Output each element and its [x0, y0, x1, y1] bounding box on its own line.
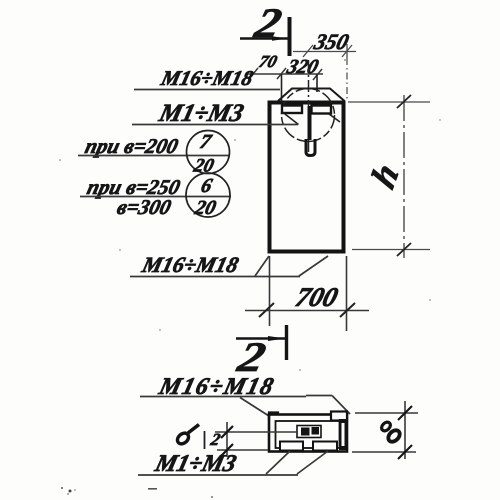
- center plate with two nuts: [297, 426, 321, 438]
- position bubble 6/20: [186, 173, 230, 217]
- anchor plate left (M1-M3): [282, 106, 302, 114]
- stray scan speck 2: [148, 488, 157, 490]
- stray scan speck 1: [69, 490, 72, 493]
- svg-text:М1÷М3: М1÷М3: [152, 450, 239, 477]
- dimension 350: extension dash-dot: [346, 58, 348, 100]
- section view top-left tab: [269, 413, 278, 421]
- anchor plate right (M1-M3): [312, 106, 332, 114]
- bottom notch right (M1-M3): [313, 442, 337, 451]
- construction line through plate: [215, 431, 297, 433]
- dimension 350: dim line: [293, 44, 356, 58]
- dimension v script text (two-loop script letter): [380, 420, 402, 444]
- dimension h: extension line top: [348, 101, 430, 103]
- leader diagonal to bottom edge right: [299, 256, 328, 276]
- small vertical bar: [204, 431, 206, 449]
- leader horizontal stub: [306, 395, 332, 397]
- svg-text:М16÷М18: М16÷М18: [139, 252, 241, 277]
- construction line bottom: [217, 449, 268, 451]
- position bubble 7/20: [187, 131, 230, 174]
- svg-text:320: 320: [284, 56, 321, 78]
- dimension v (section): dim line vertical: [404, 401, 406, 459]
- leader diagonal to right notch: [297, 451, 328, 474]
- leader diagonal to section top-right corner: [332, 396, 350, 415]
- dimension v (section): extension top: [355, 412, 418, 414]
- section mark 2 (bottom): cut line vertical: [236, 325, 287, 360]
- section mark 2 (top): cut line vertical: [240, 17, 290, 56]
- bottom notch left (M1-M3): [280, 442, 303, 451]
- column outline (elevation): [270, 103, 344, 252]
- dimension h: oblique ticks: [397, 95, 411, 256]
- section right wall (dark): [339, 419, 347, 450]
- leader underline M16-M18 (top): [134, 89, 280, 91]
- leader diagonal to left notch: [266, 451, 290, 474]
- small dim oblique ticks: [221, 426, 233, 456]
- leader underline M16-M18 (bottom): [130, 276, 300, 278]
- section view inner outline: [276, 421, 340, 448]
- dimension h: dim line (dash-dot vertical): [403, 95, 405, 258]
- dimension 70/320: dim line: [246, 68, 323, 80]
- svg-text:М1÷М3: М1÷М3: [156, 99, 247, 127]
- dimension 700: extension line right: [346, 256, 348, 331]
- section view outer outline: [269, 415, 347, 452]
- column top cap (trapezoid): [278, 89, 345, 102]
- leader underline pri v=250 / bubble divider: [80, 196, 231, 198]
- dimension 700: oblique ticks: [259, 303, 355, 317]
- svg-text:350: 350: [311, 29, 352, 54]
- nut right (filled): [312, 427, 320, 435]
- dimension 700: dim line: [245, 310, 369, 312]
- svg-text:М16÷М18: М16÷М18: [158, 66, 256, 90]
- leader underline M1-M3: [132, 124, 298, 126]
- leader diagonal at right plate: [329, 114, 340, 122]
- dimension h: extension line bottom: [352, 249, 430, 251]
- anchor bolt shank: [308, 106, 312, 140]
- leader diagonal to section top-left corner: [240, 398, 269, 417]
- dimension v (section): extension bottom: [352, 451, 416, 453]
- dimension v (section): oblique ticks: [398, 406, 412, 459]
- extension line right (x=317): [316, 74, 318, 92]
- detail circle (dashed): [282, 89, 335, 142]
- extension line left (x=281): [281, 74, 283, 101]
- leader underline M1-M3 (section): [138, 474, 298, 476]
- anchor bolt slot (U shape): [306, 139, 315, 156]
- section view top-right tab: [331, 412, 347, 421]
- svg-text:в=300: в=300: [115, 195, 174, 219]
- svg-text:при в=200: при в=200: [83, 134, 181, 158]
- leader underline pri v=200 / bubble divider: [78, 155, 229, 157]
- centerline (vertical dash-dot): [308, 60, 310, 160]
- small script b (rotated, drawn): [175, 425, 199, 447]
- nut left (filled): [301, 428, 310, 436]
- scan speckle noise: [59, 59, 440, 498]
- leader diagonal into left plate: [283, 113, 299, 125]
- dimension 700: extension line left: [269, 256, 271, 326]
- small dim line vertical x=227: [226, 422, 228, 457]
- leader diagonal to bottom-left corner: [255, 256, 269, 276]
- leader underline M16-M18 (section): [140, 396, 306, 398]
